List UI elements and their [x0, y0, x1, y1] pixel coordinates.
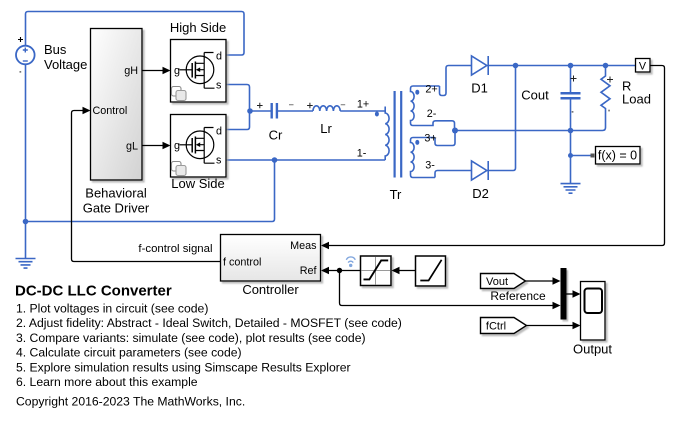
svg-text:Meas: Meas [290, 240, 317, 252]
svg-text:5. Explore simulation results: 5. Explore simulation results using Sims… [16, 360, 351, 374]
svg-text:DC-DC LLC Converter: DC-DC LLC Converter [15, 283, 172, 300]
svg-text:s: s [216, 155, 222, 167]
svg-text:s: s [216, 80, 222, 92]
svg-text:Vout: Vout [486, 276, 508, 288]
svg-text:Gate Driver: Gate Driver [83, 201, 150, 216]
svg-text:f-control signal: f-control signal [138, 243, 212, 255]
svg-text:Copyright 2016-2023 The MathWo: Copyright 2016-2023 The MathWorks, Inc. [16, 394, 245, 408]
svg-text:3-: 3- [425, 160, 435, 172]
svg-text:Ref: Ref [300, 265, 318, 277]
svg-text:3+: 3+ [424, 133, 436, 145]
svg-text:Controller: Controller [242, 282, 299, 297]
svg-text:2-: 2- [427, 108, 437, 120]
svg-text:Load: Load [622, 92, 651, 107]
svg-text:Low Side: Low Side [171, 176, 224, 191]
svg-text:gL: gL [126, 141, 138, 153]
svg-text:Cr: Cr [269, 128, 283, 143]
svg-text:2+: 2+ [425, 84, 437, 96]
svg-text:Tr: Tr [390, 187, 402, 202]
svg-text:Cout: Cout [521, 88, 549, 103]
svg-text:4. Calculate circuit parameter: 4. Calculate circuit parameters (see cod… [16, 346, 242, 360]
svg-text:fCtrl: fCtrl [486, 321, 506, 333]
svg-text:1. Plot voltages in circuit (s: 1. Plot voltages in circuit (see code) [16, 302, 208, 316]
svg-text:f control: f control [223, 257, 261, 269]
svg-text:d: d [216, 126, 222, 138]
svg-text:f(x) = 0: f(x) = 0 [598, 149, 637, 163]
svg-text:Bus: Bus [44, 42, 67, 57]
svg-text:1-: 1- [357, 148, 367, 160]
svg-text:Lr: Lr [320, 121, 332, 136]
svg-text:Output: Output [573, 342, 612, 357]
svg-text:Behavioral: Behavioral [85, 186, 147, 201]
svg-text:Reference: Reference [490, 289, 546, 303]
svg-text:2. Adjust fidelity: Abstract -: 2. Adjust fidelity: Abstract - Ideal Swi… [16, 316, 402, 330]
svg-text:High Side: High Side [170, 20, 226, 35]
svg-text:1+: 1+ [357, 99, 369, 111]
svg-text:D1: D1 [471, 81, 488, 96]
svg-text:g: g [174, 140, 180, 152]
svg-text:d: d [216, 51, 222, 63]
svg-text:3. Compare variants: simulate: 3. Compare variants: simulate (see code)… [16, 331, 366, 345]
svg-text:D2: D2 [472, 186, 489, 201]
svg-text:g: g [174, 65, 180, 77]
svg-text:Control: Control [93, 105, 128, 117]
svg-text:gH: gH [124, 65, 138, 77]
svg-text:6. Learn more about this examp: 6. Learn more about this example [16, 375, 198, 389]
svg-text:V: V [639, 61, 647, 73]
svg-text:Voltage: Voltage [44, 57, 87, 72]
